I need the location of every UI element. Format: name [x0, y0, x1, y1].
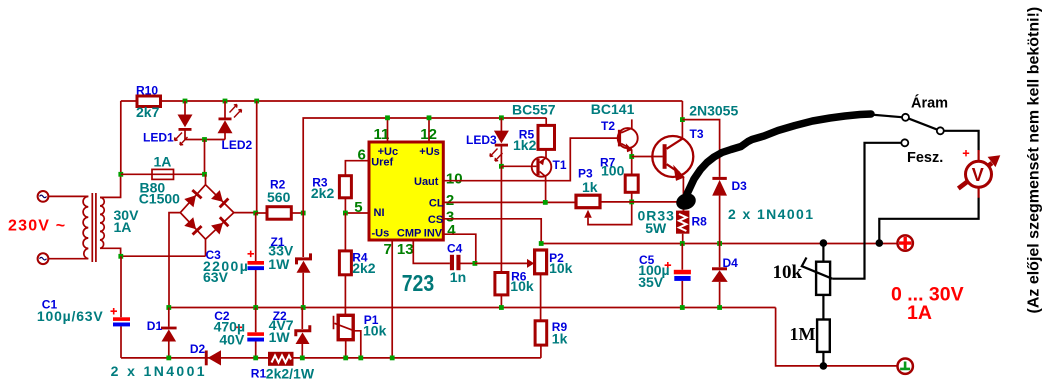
svg-text:1A: 1A: [907, 302, 932, 324]
svg-text:10k: 10k: [549, 260, 573, 276]
svg-text:2k7: 2k7: [136, 104, 160, 120]
svg-text:2k2: 2k2: [311, 185, 335, 201]
wire switch to meter: [944, 131, 979, 151]
bridge lead right: [234, 212, 256, 214]
junction R10-LED1: [183, 99, 188, 104]
junction T3 collector: [680, 117, 685, 122]
voltmeter V: [958, 155, 1000, 188]
wire Fesz to pot wiper: [832, 143, 901, 279]
switch lever: [906, 117, 941, 131]
svg-text:D2: D2: [190, 342, 206, 356]
plus output terminal: [898, 235, 913, 250]
svg-text:1n: 1n: [450, 269, 466, 285]
LED1: [178, 101, 193, 140]
svg-text:NI: NI: [374, 207, 385, 219]
svg-text:R10: R10: [136, 84, 158, 98]
svg-text:R1: R1: [251, 367, 267, 381]
svg-text:10k: 10k: [510, 278, 534, 294]
junction D3-D4: [717, 241, 722, 246]
LED3: [494, 118, 509, 167]
resistor R3: [339, 176, 351, 198]
wire R3 bottom: [344, 198, 346, 213]
diode D1: [161, 308, 177, 358]
svg-text:LED3: LED3: [466, 133, 497, 147]
thick black wire from T3 emitter: [684, 114, 872, 206]
junction T2 emitter T3 base: [629, 154, 634, 159]
wire fuse line left: [121, 173, 152, 175]
wire pin10 Uaut: [443, 138, 618, 181]
junction Z1 bottom: [301, 305, 306, 310]
junction R2-Z1: [301, 211, 306, 216]
transformer TR1 primary winding: [83, 196, 88, 258]
svg-text:LED2: LED2: [222, 138, 253, 152]
wire bottom rail 0V return: [121, 357, 541, 359]
bridge diode top-right: [211, 190, 229, 208]
svg-text:1A: 1A: [154, 154, 172, 170]
svg-text:2: 2: [446, 192, 454, 209]
wire LED3 to R6: [500, 166, 502, 272]
wire P1 bottom: [345, 340, 347, 358]
junction Z2 bottom: [300, 356, 305, 361]
svg-text:R8: R8: [692, 215, 708, 229]
svg-text:2k2: 2k2: [352, 260, 376, 276]
wire rail B top: [545, 118, 547, 126]
svg-text:D1: D1: [147, 319, 163, 333]
svg-text:BC557: BC557: [512, 101, 556, 117]
wire pin6 Uref: [345, 161, 369, 176]
svg-text:Uaut: Uaut: [414, 176, 439, 188]
LED1 light arrows: [175, 133, 188, 146]
svg-text:4: 4: [447, 222, 456, 239]
LED3 light arrows: [490, 149, 503, 162]
svg-text:100µ/63V: 100µ/63V: [37, 308, 104, 324]
svg-text:1W: 1W: [268, 256, 290, 272]
zener Z2: [294, 308, 311, 358]
wire R7 bottom: [631, 192, 633, 202]
wire T3 base: [632, 156, 663, 158]
fuse 1A: [152, 169, 174, 179]
wire R9 bottom: [540, 345, 542, 358]
capacitor C3: [248, 213, 265, 308]
wire top rail raw plus: [121, 100, 683, 102]
svg-text:40V: 40V: [219, 332, 245, 348]
wire plus rail: [541, 243, 897, 245]
svg-text:+Us: +Us: [419, 146, 440, 158]
resistor R2: [267, 207, 291, 220]
svg-text:10: 10: [446, 170, 463, 187]
junction P1 wiper bottom: [358, 356, 363, 361]
transformer TR1 core: [92, 193, 96, 262]
wire P3 right to R8 node: [600, 202, 683, 211]
junction LED2 top: [223, 99, 228, 104]
junction transformer bottom: [118, 254, 123, 259]
junction R3-R4-pin5: [343, 211, 348, 216]
LED2: [218, 101, 233, 140]
node pot top rail: [820, 239, 828, 247]
junction LED3-T1 base: [499, 164, 504, 169]
junction R7-P3: [629, 200, 634, 205]
svg-text:INV: INV: [424, 228, 443, 240]
svg-text:T2: T2: [601, 119, 615, 133]
transistor T2 BC141: [618, 119, 638, 175]
wire pot to 1M: [822, 295, 824, 320]
svg-text:CMP: CMP: [397, 228, 421, 240]
junction D4 bottom: [717, 305, 722, 310]
AC source terminal bottom: [38, 253, 49, 264]
svg-text:1k: 1k: [582, 179, 598, 195]
transistor T3 2N3055: [652, 136, 693, 211]
junction bridge out: [253, 211, 258, 216]
svg-text:6: 6: [358, 146, 366, 163]
wire 1M bottom: [822, 352, 824, 366]
junction D1 bottom: [166, 356, 171, 361]
resistor R10: [137, 96, 161, 107]
black blob at emitter: [674, 191, 698, 213]
svg-text:CS: CS: [428, 214, 443, 226]
diode D2: [205, 350, 221, 365]
svg-text:2k2/1W: 2k2/1W: [266, 366, 315, 382]
meter lead bottom red: [977, 187, 979, 198]
wire AC2 to primary: [49, 258, 89, 260]
wire pin12: [428, 118, 430, 142]
junction fuse-bridge: [202, 172, 207, 177]
C2 plus mark: [236, 324, 243, 331]
wire LED1-LED2 bottom link: [185, 139, 225, 141]
thin black wire to switch: [870, 115, 902, 118]
bridge lead bottom: [205, 239, 207, 256]
junction R8-C5: [680, 241, 685, 246]
wire 0V rail: [169, 307, 776, 309]
svg-text:C1500: C1500: [139, 191, 180, 207]
svg-text:35V: 35V: [638, 274, 664, 290]
wire meter return: [879, 198, 978, 243]
wire R8 bottom: [682, 234, 684, 244]
svg-text:7: 7: [384, 241, 392, 258]
C3 plus mark: [248, 251, 255, 258]
wire secondary bottom lead: [100, 248, 121, 256]
svg-text:1M: 1M: [790, 324, 816, 344]
svg-text:D4: D4: [723, 256, 739, 270]
resistor R9: [535, 321, 547, 345]
potentiometer P2: [535, 250, 547, 321]
resistor R8 power: [676, 211, 689, 234]
switch pole Fesz: [901, 139, 908, 146]
svg-text:T1: T1: [553, 158, 567, 172]
wire 0V to ground terminal: [776, 308, 898, 366]
zener Z1: [295, 213, 312, 308]
potentiometer 10k black: [816, 262, 830, 295]
junction D1 top: [166, 305, 171, 310]
junction pin11 rail: [385, 115, 390, 120]
svg-text:D3: D3: [732, 179, 748, 193]
svg-text:100: 100: [601, 162, 625, 178]
wire AC1 to primary: [49, 195, 89, 197]
svg-text:1W: 1W: [269, 329, 291, 345]
svg-text:V: V: [972, 165, 984, 185]
svg-text:CL: CL: [429, 197, 444, 209]
bridge rectifier B1 outline: [180, 185, 234, 240]
wire R2 left: [256, 212, 267, 214]
junction P1 bottom: [343, 356, 348, 361]
junction C5 bottom: [680, 305, 685, 310]
svg-text:1k2: 1k2: [513, 137, 537, 153]
potentiometer P3: [576, 195, 632, 224]
resistor R7: [625, 175, 638, 192]
wire pin3 CS: [443, 219, 541, 244]
pot 10k wiper arrow: [802, 258, 832, 279]
ground output terminal: [898, 359, 913, 374]
junction CS-P2-plus rail: [539, 241, 544, 246]
node 1M ground rail: [820, 362, 828, 370]
capacitor C5: [674, 244, 691, 308]
wire R4 to P1: [344, 275, 346, 316]
resistor 1M black: [817, 320, 830, 352]
resistor R4: [339, 251, 351, 275]
svg-text:Uref: Uref: [371, 156, 393, 168]
switch pole Aram: [902, 114, 909, 121]
svg-text:(Az előjel szegmensét nem kell: (Az előjel szegmensét nem kell bekötni!): [1026, 7, 1043, 314]
wire rail B start corner: [303, 118, 546, 213]
resistor R6: [495, 273, 508, 295]
svg-text:C4: C4: [447, 242, 463, 256]
wire left riser to top rail: [120, 101, 122, 174]
capacitor C4: [450, 255, 475, 270]
wire LED link down to fuse line: [204, 140, 206, 175]
svg-text:Fesz.: Fesz.: [907, 150, 943, 166]
junction C3 bottom: [253, 305, 258, 310]
resistor R1 power: [268, 352, 294, 366]
svg-text:63V: 63V: [203, 269, 229, 285]
svg-text:2 x 1N4001: 2 x 1N4001: [728, 206, 814, 222]
capacitor C2: [247, 308, 264, 358]
svg-text:2 x 1N4001: 2 x 1N4001: [111, 363, 207, 379]
junction transformer-fuse: [118, 172, 123, 177]
junction raw plus riser: [254, 99, 259, 104]
LED2 light arrows: [230, 105, 242, 118]
wire pin2 CL: [443, 201, 576, 203]
meter lead top red: [977, 150, 979, 161]
bridge diode top-left: [184, 189, 202, 207]
wire riser x256: [256, 101, 258, 213]
wire pin5 NI: [345, 212, 369, 214]
diode D3: [712, 177, 727, 244]
meter plus mark: [963, 150, 969, 156]
wire C4 to P2 wiper arrow: [475, 259, 534, 268]
junction R6 bottom: [499, 305, 504, 310]
junction C2 bottom: [253, 356, 258, 361]
wire R2 right: [291, 212, 303, 214]
wire pin7 ground: [391, 240, 393, 358]
bridge diode bottom-left: [184, 217, 202, 235]
wire R4 top: [344, 213, 346, 251]
transformer TR1 secondary winding: [100, 197, 104, 248]
svg-text:T3: T3: [690, 127, 704, 141]
resistor R5: [538, 125, 555, 149]
switch common: [937, 127, 944, 134]
wire AC bottom link: [121, 255, 206, 257]
IC U1 723 body: [369, 142, 443, 240]
C1 plus mark: [111, 308, 118, 315]
bridge diode bottom-right: [211, 216, 229, 234]
wire rail corner to T3 collector: [681, 101, 683, 139]
svg-text:723: 723: [402, 270, 435, 296]
bridge lead top: [205, 174, 207, 184]
junction pin12 rail: [427, 115, 432, 120]
diode D4: [712, 244, 728, 308]
junction LED3 rail: [499, 115, 504, 120]
wire to D3: [682, 120, 719, 177]
junction pin7 bottom: [390, 356, 395, 361]
svg-text:560: 560: [267, 189, 291, 205]
svg-text:230V ~: 230V ~: [8, 218, 66, 235]
svg-text:10k: 10k: [773, 262, 803, 283]
svg-text:Áram: Áram: [911, 95, 948, 112]
wire pin13 CMP: [413, 240, 450, 263]
svg-text:1k: 1k: [552, 331, 568, 347]
svg-text:13: 13: [397, 241, 414, 258]
wire pot top lead: [822, 243, 824, 262]
potentiometer P1: [334, 315, 361, 358]
C5 plus mark: [665, 262, 672, 269]
junction LED link: [202, 137, 207, 142]
transistor T1 BC557: [532, 149, 552, 202]
junction C4-pin4: [473, 261, 478, 266]
node meter-plus rail: [876, 239, 884, 247]
wire T1 base: [501, 165, 536, 167]
svg-text:LED1: LED1: [143, 131, 174, 145]
capacitor C1: [113, 256, 130, 358]
wire secondary top lead: [100, 174, 121, 197]
svg-text:10k: 10k: [363, 323, 387, 339]
svg-text:BC141: BC141: [591, 101, 635, 117]
svg-text:1A: 1A: [114, 219, 132, 235]
AC source terminal top: [38, 191, 49, 202]
svg-text:5W: 5W: [645, 220, 667, 236]
wire pin4 INV: [443, 234, 476, 263]
bridge lead left: [169, 213, 180, 308]
svg-text:2N3055: 2N3055: [689, 103, 738, 119]
wire fuse to bridge: [174, 173, 205, 175]
wire R6 bottom: [500, 295, 502, 308]
svg-text:-Us: -Us: [372, 228, 390, 240]
wire pin11: [387, 118, 389, 142]
junction T1 collector CL: [543, 200, 548, 205]
svg-text:5: 5: [354, 199, 362, 216]
